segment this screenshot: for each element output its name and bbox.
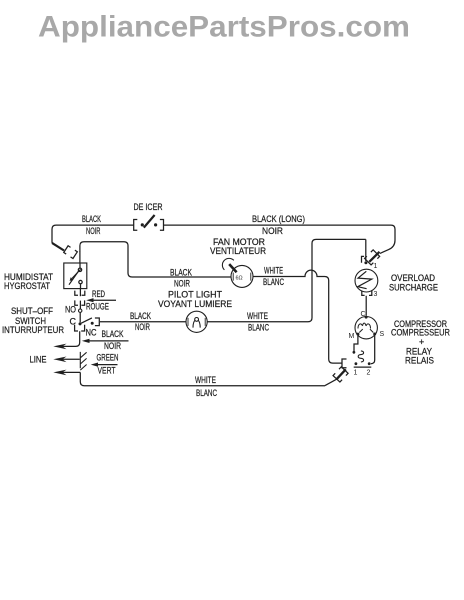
svg-text:OVERLOAD: OVERLOAD [391,273,435,283]
svg-text:BLANC: BLANC [248,323,269,333]
svg-text:VOYANT LUMIERE: VOYANT LUMIERE [158,299,232,309]
svg-text:3: 3 [374,291,378,298]
svg-text:WHITE: WHITE [247,311,268,321]
svg-text:VENTILATEUR: VENTILATEUR [210,246,266,256]
svg-text:C: C [361,311,366,318]
svg-text:+: + [419,337,424,347]
svg-text:INTURRUPTEUR: INTURRUPTEUR [2,325,64,335]
svg-text:BLACK: BLACK [102,329,124,339]
svg-text:1: 1 [354,370,358,377]
svg-text:COMPRESSEUR: COMPRESSEUR [391,328,450,338]
svg-text:S: S [380,331,385,338]
svg-text:M: M [349,333,355,340]
svg-text:C: C [70,317,77,327]
svg-text:LINE: LINE [30,355,47,365]
svg-text:ROUGE: ROUGE [86,302,109,312]
svg-text:NOIR: NOIR [262,226,283,236]
svg-text:6Ω: 6Ω [236,276,243,282]
svg-text:PILOT LIGHT: PILOT LIGHT [168,290,222,300]
svg-text:BLACK: BLACK [170,268,192,278]
svg-text:NO: NO [65,305,76,315]
svg-text:GREEN: GREEN [97,353,119,363]
svg-text:BLANC: BLANC [196,388,217,398]
svg-text:NOIR: NOIR [104,341,121,351]
svg-text:NOIR: NOIR [86,226,101,236]
svg-text:DE ICER: DE ICER [134,202,163,212]
svg-text:BLACK: BLACK [82,214,101,224]
svg-text:NOIR: NOIR [174,279,190,289]
svg-text:NOIR: NOIR [135,322,150,332]
svg-text:AppliancePartsPros.com: AppliancePartsPros.com [38,11,410,44]
svg-text:2: 2 [367,370,371,377]
svg-text:SURCHARGE: SURCHARGE [389,283,438,293]
svg-text:WHITE: WHITE [195,375,216,385]
svg-text:NC: NC [86,328,97,338]
svg-text:WHITE: WHITE [264,266,283,276]
svg-text:1: 1 [374,263,378,270]
svg-text:VERT: VERT [98,366,116,376]
svg-text:RELAIS: RELAIS [405,356,434,366]
svg-text:SHUT–OFF: SHUT–OFF [11,306,53,316]
svg-text:BLACK (LONG): BLACK (LONG) [252,214,305,224]
svg-text:RED: RED [92,289,105,299]
svg-text:BLACK: BLACK [130,311,151,321]
svg-text:BLANC: BLANC [263,277,284,287]
svg-text:HYGROSTAT: HYGROSTAT [4,281,50,291]
